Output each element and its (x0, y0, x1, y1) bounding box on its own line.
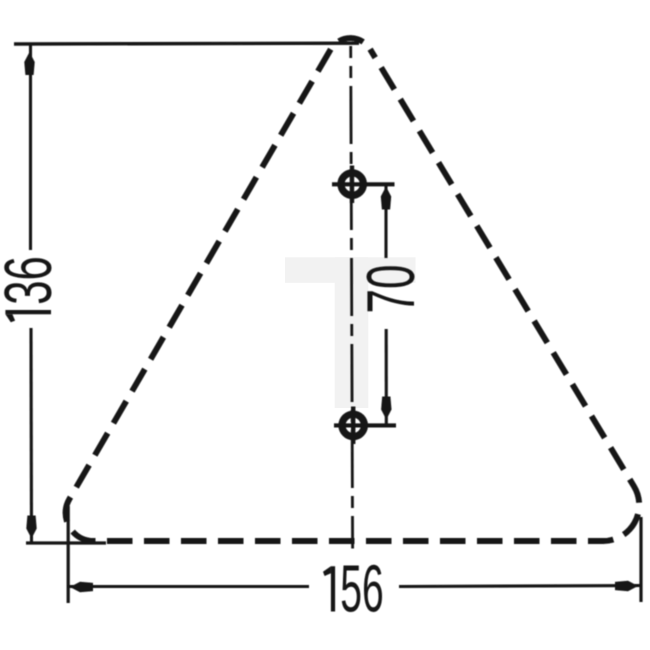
dim 156: arrow right (615, 581, 638, 591)
dim 136: arrow down (26, 516, 36, 539)
hole H2 (bottom) (334, 407, 396, 445)
dim 136: arrow up (24, 52, 34, 75)
dim 156: dimension line right segment (399, 586, 641, 587)
dim 136: dimension line lower segment (29, 328, 33, 543)
watermark letter T (285, 257, 416, 408)
dim 156: left extension line (67, 506, 70, 603)
dim 70: arrow down (381, 397, 391, 420)
dim 156: arrow left (70, 582, 93, 592)
hole H1 (top) (332, 166, 395, 204)
dim 136: dimension line upper segment (29, 45, 32, 250)
dim 136: label (0, 256, 66, 322)
svg-text:56: 56 (340, 553, 384, 627)
dim 156: right extension line (639, 517, 642, 602)
dim 156: label (323, 553, 384, 627)
svg-text:36: 36 (0, 256, 66, 305)
dim 136: bottom extension line (26, 541, 106, 544)
dim 70: dimension line lower segment (385, 329, 388, 425)
dim 70: dimension line upper segment (384, 186, 387, 258)
dim 70: arrow up (381, 187, 391, 210)
svg-text:70: 70 (353, 265, 429, 314)
dim 136: top extension line (14, 42, 359, 46)
dim 156: dimension line left segment (68, 585, 309, 588)
vertical centerline (351, 46, 353, 549)
triangle outline (dashed, rounded corners) (66, 38, 640, 541)
